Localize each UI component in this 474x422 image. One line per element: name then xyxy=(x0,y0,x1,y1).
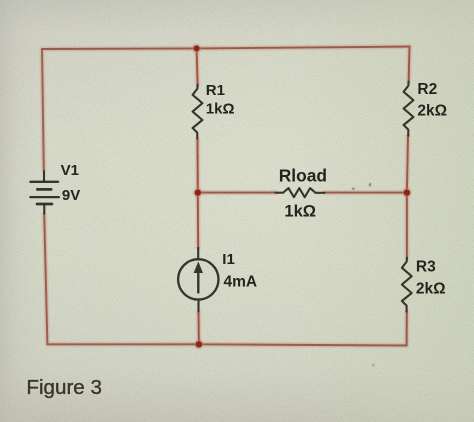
wire: left lower (battery to bottom) xyxy=(44,214,47,344)
wire: left upper (to battery) xyxy=(42,49,44,170)
wire: mid junction to I1 xyxy=(197,193,199,248)
resistor R3 xyxy=(402,258,412,312)
speck 3 xyxy=(372,364,375,367)
wire: right top (to R2) xyxy=(408,47,411,82)
speck 2 xyxy=(369,183,371,187)
speck 1 xyxy=(352,188,354,190)
current source I1 xyxy=(178,248,218,312)
node dots xyxy=(194,45,410,347)
resistor Rload xyxy=(275,188,324,197)
node right junction xyxy=(404,189,410,195)
wire: R3 to bottom xyxy=(406,312,408,346)
resistor R2 xyxy=(404,82,414,136)
wire: R2 to mid junction xyxy=(407,136,408,193)
wire: R1 to mid junction xyxy=(197,139,199,193)
wire: Rload to right junction xyxy=(325,192,407,194)
node bottom junction xyxy=(196,341,202,347)
wire: mid junction to Rload xyxy=(198,192,276,194)
resistor R1 xyxy=(193,85,203,139)
node dot glows xyxy=(192,44,412,349)
wire: glow halos xyxy=(42,47,410,346)
battery V1 xyxy=(30,171,59,213)
wire: top junction to R1 xyxy=(197,48,198,85)
wire: top net xyxy=(42,47,410,49)
I1 arrow head xyxy=(194,262,203,274)
wire: bottom net xyxy=(47,344,406,345)
wire: I1 to bottom junction xyxy=(198,312,200,344)
node top junction xyxy=(194,45,200,51)
node middle junction xyxy=(195,189,201,195)
wire: mid junction to R3 xyxy=(406,193,408,258)
